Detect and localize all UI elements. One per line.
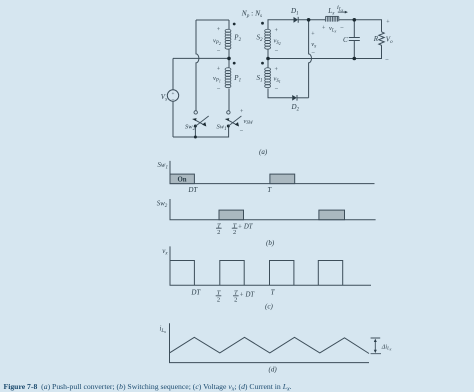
svg-text:−: − xyxy=(311,50,315,57)
svg-text:(d): (d) xyxy=(269,366,278,374)
svg-text:DT: DT xyxy=(190,288,201,296)
svg-text:−: − xyxy=(340,25,344,32)
svg-text:−: − xyxy=(275,86,279,93)
svg-text:2: 2 xyxy=(234,296,237,303)
svg-text:+: + xyxy=(217,27,221,33)
svg-text:+: + xyxy=(217,67,221,73)
svg-text:(c): (c) xyxy=(265,303,273,311)
svg-text:2: 2 xyxy=(233,229,236,236)
svg-text:Figure 7-8 (a) Push-pull conv: Figure 7-8 (a) Push-pull converter; (b) … xyxy=(4,382,292,392)
svg-text:DT: DT xyxy=(187,186,198,194)
svg-text:2: 2 xyxy=(217,229,220,236)
svg-text:+: + xyxy=(386,20,390,26)
svg-text:R: R xyxy=(373,35,379,43)
svg-text:−: − xyxy=(171,97,174,103)
svg-text:(b): (b) xyxy=(266,239,275,247)
svg-text:(a): (a) xyxy=(259,148,268,156)
svg-text:+ DT: + DT xyxy=(239,292,255,299)
svg-text:Np : Ns: Np : Ns xyxy=(241,8,262,19)
svg-text:−: − xyxy=(217,86,221,93)
svg-text:2: 2 xyxy=(217,296,220,303)
svg-text:+ DT: + DT xyxy=(238,224,254,231)
svg-text:−: − xyxy=(275,48,279,55)
svg-text:−: − xyxy=(240,128,244,135)
svg-text:C: C xyxy=(343,36,348,44)
svg-text:−: − xyxy=(385,57,389,64)
svg-text:−: − xyxy=(217,48,221,55)
svg-text:On: On xyxy=(177,177,186,184)
